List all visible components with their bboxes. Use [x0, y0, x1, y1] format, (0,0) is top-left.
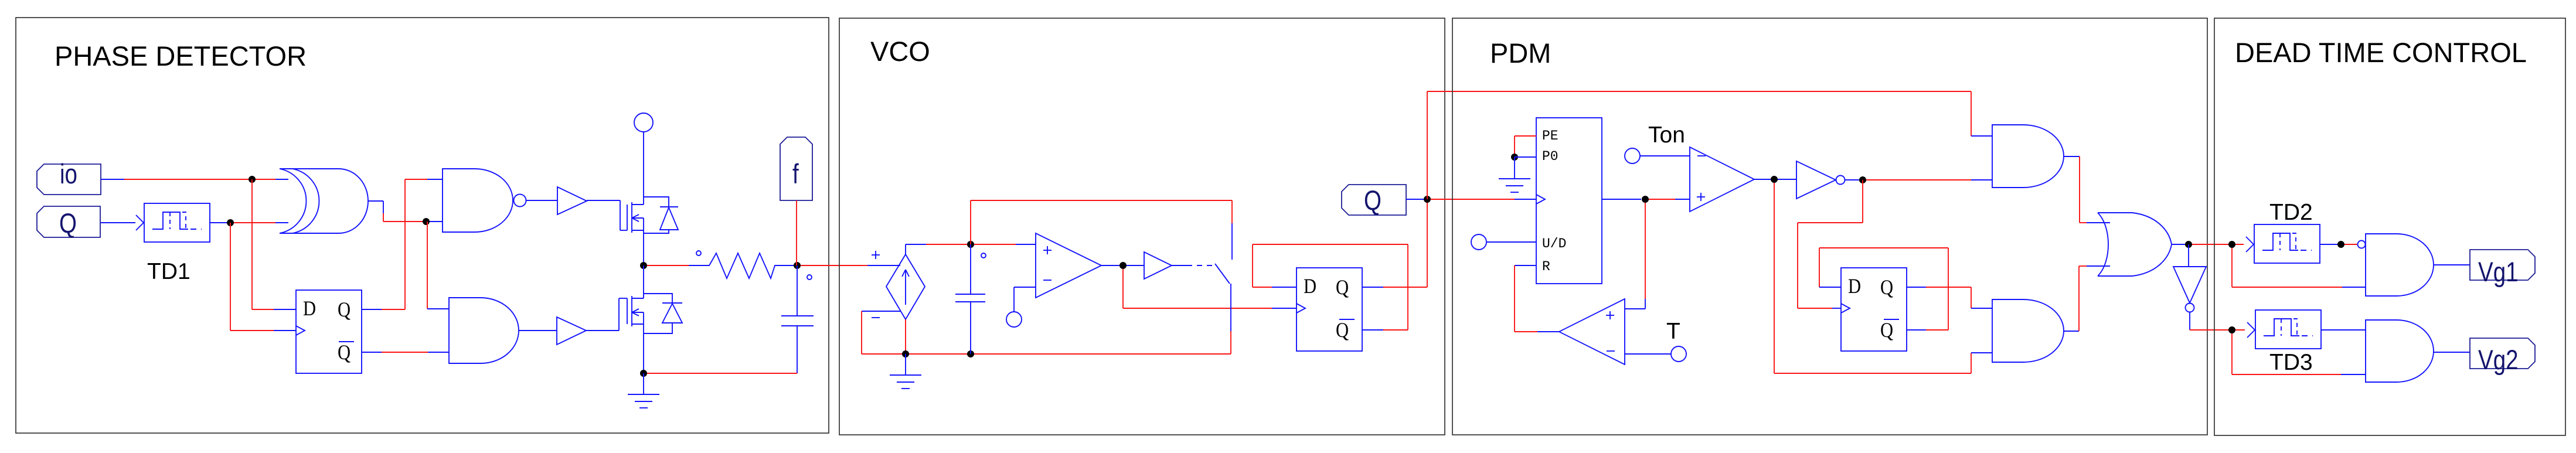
- svg-text:VCO: VCO: [870, 36, 930, 67]
- svg-text:f: f: [792, 159, 799, 189]
- resistor R1: [689, 253, 794, 278]
- wire inverter out: [1845, 179, 1859, 180]
- node rail gnd: [902, 350, 909, 357]
- wire source top to cap node: [906, 244, 967, 254]
- mosfet Q2: [627, 294, 682, 333]
- svg-text:R: R: [1542, 259, 1550, 274]
- nand gate U3: [443, 169, 526, 232]
- svg-text:Vg2: Vg2: [2478, 345, 2519, 375]
- wire f input to source plus: [863, 265, 900, 266]
- wire Qbar to AND bottom: [362, 352, 449, 353]
- wire io output: [101, 179, 288, 180]
- flag Q vco: [1342, 185, 1406, 216]
- wire inverter out to AND1: [1866, 179, 1992, 180]
- wire AND3 out: [2434, 264, 2470, 265]
- d flip-flop U15: [1841, 268, 1907, 351]
- block frame PHASE DETECTOR: [16, 18, 829, 433]
- node TD2 in: [2228, 241, 2235, 248]
- node cap bottom: [967, 350, 974, 357]
- svg-text:Q: Q: [1880, 319, 1893, 342]
- wire cap node to opamp plus: [974, 244, 1036, 245]
- wire comp1 out to bottom rail: [1774, 183, 1992, 373]
- buffer U4: [557, 187, 587, 214]
- wire inverter2 out to TD3: [2190, 312, 2244, 330]
- time delay TD3: [2247, 310, 2321, 349]
- wire inverter out to dff clock: [1798, 180, 1863, 308]
- wire buffer to switch control dashed: [1172, 265, 1212, 266]
- node OR out: [2185, 241, 2192, 248]
- switch S1 blade: [1215, 264, 1230, 284]
- block frame DEAD TIME CONTROL: [2214, 18, 2565, 435]
- wire source bottom to rail: [905, 319, 906, 354]
- wire Ton input: [1640, 155, 1690, 156]
- svg-text:Q: Q: [1364, 185, 1381, 216]
- svg-text:D: D: [303, 297, 316, 321]
- svg-text:TD1: TD1: [147, 259, 190, 284]
- wire OR output: [2172, 244, 2185, 245]
- svg-text:Q: Q: [1336, 276, 1349, 299]
- wire TD1 to clock: [230, 223, 296, 331]
- wire switch bottom to rail: [1230, 284, 1231, 354]
- wire Q net to PDM top rail: [1427, 91, 1971, 199]
- node inverter out: [1859, 176, 1866, 183]
- wire AND to buffer2: [519, 330, 557, 331]
- svg-text:PHASE DETECTOR: PHASE DETECTOR: [55, 40, 307, 71]
- port circle opamp ref: [1006, 312, 1022, 327]
- supply terminal circle: [634, 113, 653, 132]
- wire Q flag stub: [1406, 199, 1424, 200]
- minus mark source: [872, 317, 880, 318]
- plus mark source: [872, 251, 880, 259]
- wire comp1 output: [1754, 179, 1796, 180]
- wire TD2 output: [2320, 244, 2357, 245]
- svg-text:TD3: TD3: [2269, 350, 2313, 375]
- wire XOR output: [367, 201, 443, 222]
- svg-text:T: T: [1666, 319, 1680, 344]
- and gate U16: [1992, 299, 2064, 362]
- controlled current source I1: [886, 254, 925, 319]
- wire TD1 output: [210, 222, 288, 223]
- wire supply to M1 drain: [643, 132, 644, 205]
- block frame PDM: [1452, 18, 2207, 435]
- svg-text:Q: Q: [1880, 276, 1893, 299]
- wire TD3 output: [2321, 329, 2366, 331]
- wire P0 stub: [1515, 156, 1536, 158]
- node comp1 out: [1771, 176, 1778, 183]
- node junction XOR/AND: [423, 218, 430, 225]
- xor gate U1: [280, 169, 368, 233]
- ground G1: [628, 373, 659, 408]
- svg-text:Vg1: Vg1: [2478, 257, 2519, 287]
- wire top rail to AND1: [1971, 91, 1992, 136]
- flag f: [780, 137, 812, 200]
- wire M2 source to gnd node: [643, 324, 644, 373]
- node Q net: [1424, 196, 1431, 203]
- node counter out: [1642, 196, 1649, 203]
- capacitor C1: [781, 265, 814, 373]
- node cap top: [967, 241, 974, 248]
- wire opamp out: [1101, 265, 1144, 266]
- wire gnd node to cap bottom: [647, 373, 797, 374]
- and gate U14: [1992, 125, 2064, 188]
- svg-text:io: io: [60, 159, 77, 189]
- wire Q output: [1362, 199, 1427, 287]
- wire counter out to comp2: [1625, 203, 1645, 309]
- wire source minus to rail: [862, 311, 901, 354]
- wire f to RC node: [796, 200, 797, 265]
- wire PE preset: [1515, 136, 1536, 157]
- node source/cap bottom: [640, 370, 647, 377]
- ground G3: [1499, 157, 1530, 192]
- svg-text:Q: Q: [338, 298, 351, 322]
- or gate U17: [2098, 213, 2172, 276]
- svg-text:Q: Q: [338, 341, 351, 365]
- wire TD3 stub: [2235, 329, 2245, 331]
- mosfet Q1: [627, 197, 678, 233]
- svg-text:D: D: [1304, 275, 1316, 298]
- flag Vg1: [2470, 250, 2535, 288]
- wire opamp minus to port: [1014, 287, 1036, 312]
- svg-text:P0: P0: [1542, 149, 1558, 164]
- d flip-flop U9: [1296, 268, 1362, 351]
- wire NAND to buffer: [526, 200, 557, 201]
- wire AND2 out to OR: [2064, 266, 2110, 331]
- ground G2: [890, 354, 921, 389]
- flag Vg2: [2470, 338, 2535, 376]
- and gate U19: [2366, 234, 2434, 296]
- inverting bubble AND3: [2358, 241, 2366, 248]
- wire Q net to counter clock: [1431, 199, 1536, 200]
- svg-text:PDM: PDM: [1490, 38, 1551, 69]
- wire OR out to TD2: [2192, 244, 2244, 245]
- wire mid node to resistor: [647, 265, 689, 266]
- inverter U13: [1796, 161, 1845, 199]
- and gate U20: [2366, 320, 2434, 382]
- svg-text:PE: PE: [1542, 128, 1558, 144]
- svg-text:TD2: TD2: [2269, 200, 2313, 225]
- wire Q to TD1: [101, 222, 135, 223]
- time delay TD1: [136, 203, 210, 242]
- node half-bridge mid: [640, 262, 647, 269]
- probe marker: [696, 251, 701, 256]
- wire dff3 Q to AND2: [1907, 287, 1992, 308]
- wire M1 source to node: [643, 230, 644, 265]
- node PE P0: [1511, 154, 1518, 161]
- node TD3 in: [2228, 326, 2235, 333]
- op-amp U7: [1036, 233, 1101, 298]
- block frame VCO: [839, 18, 1445, 435]
- wire UD input: [1486, 241, 1536, 243]
- time delay TD2: [2246, 224, 2320, 263]
- wire M1 mid to M2 drain: [643, 265, 644, 298]
- and gate U5: [449, 298, 519, 363]
- d flip-flop U2: [296, 290, 362, 373]
- node TD2 out: [2337, 241, 2344, 248]
- wire T input: [1625, 353, 1671, 355]
- wire io to D input: [252, 179, 296, 309]
- svg-text:Ton: Ton: [1648, 122, 1685, 148]
- comparator U11: [1690, 147, 1754, 212]
- wire RC node to VCO: [801, 265, 863, 266]
- probe marker vco: [981, 253, 986, 258]
- buffer U8: [1144, 252, 1172, 279]
- wire AND4 out: [2434, 352, 2470, 353]
- wire XOR to AND gate top: [427, 222, 449, 309]
- wire opamp out to dff clock: [1123, 269, 1296, 308]
- node opamp out: [1119, 262, 1127, 269]
- node junction io/D: [249, 176, 256, 183]
- ground rail VCO: [862, 353, 1231, 355]
- wire Q out to NAND top: [362, 179, 443, 309]
- flag io: [37, 159, 101, 195]
- wire AND1 out to OR: [2064, 156, 2110, 223]
- svg-text:DEAD TIME CONTROL: DEAD TIME CONTROL: [2235, 37, 2527, 68]
- capacitor C2: [955, 244, 985, 354]
- wire R input: [1515, 265, 1559, 332]
- wire to AND4 bottom: [2232, 333, 2366, 374]
- wire reset feedback top: [971, 200, 1232, 260]
- svg-text:U/D: U/D: [1542, 236, 1566, 251]
- buffer U6: [557, 317, 586, 345]
- probe marker 2: [807, 275, 812, 280]
- port circle T: [1671, 346, 1686, 362]
- node RC: [794, 262, 801, 269]
- svg-text:D: D: [1848, 275, 1861, 298]
- port circle Ton: [1625, 148, 1640, 164]
- wire buffer to M1 gate: [587, 200, 627, 230]
- inverter U18 down: [2173, 244, 2206, 312]
- comparator U12 reversed: [1559, 299, 1625, 365]
- wire buffer2 to M2 gate: [586, 298, 627, 331]
- wire to AND3 bottom: [2232, 248, 2366, 287]
- wire dff3 qbar feedback: [1819, 248, 1948, 330]
- port circle UD: [1471, 234, 1486, 250]
- counter U10: [1536, 118, 1602, 284]
- flag Q: [37, 206, 100, 239]
- node junction TD1 out: [227, 219, 234, 226]
- svg-text:Q: Q: [59, 208, 77, 239]
- wire counter output: [1602, 199, 1690, 200]
- wire qbar feedback to D: [1253, 244, 1408, 330]
- svg-text:Q: Q: [1336, 319, 1349, 342]
